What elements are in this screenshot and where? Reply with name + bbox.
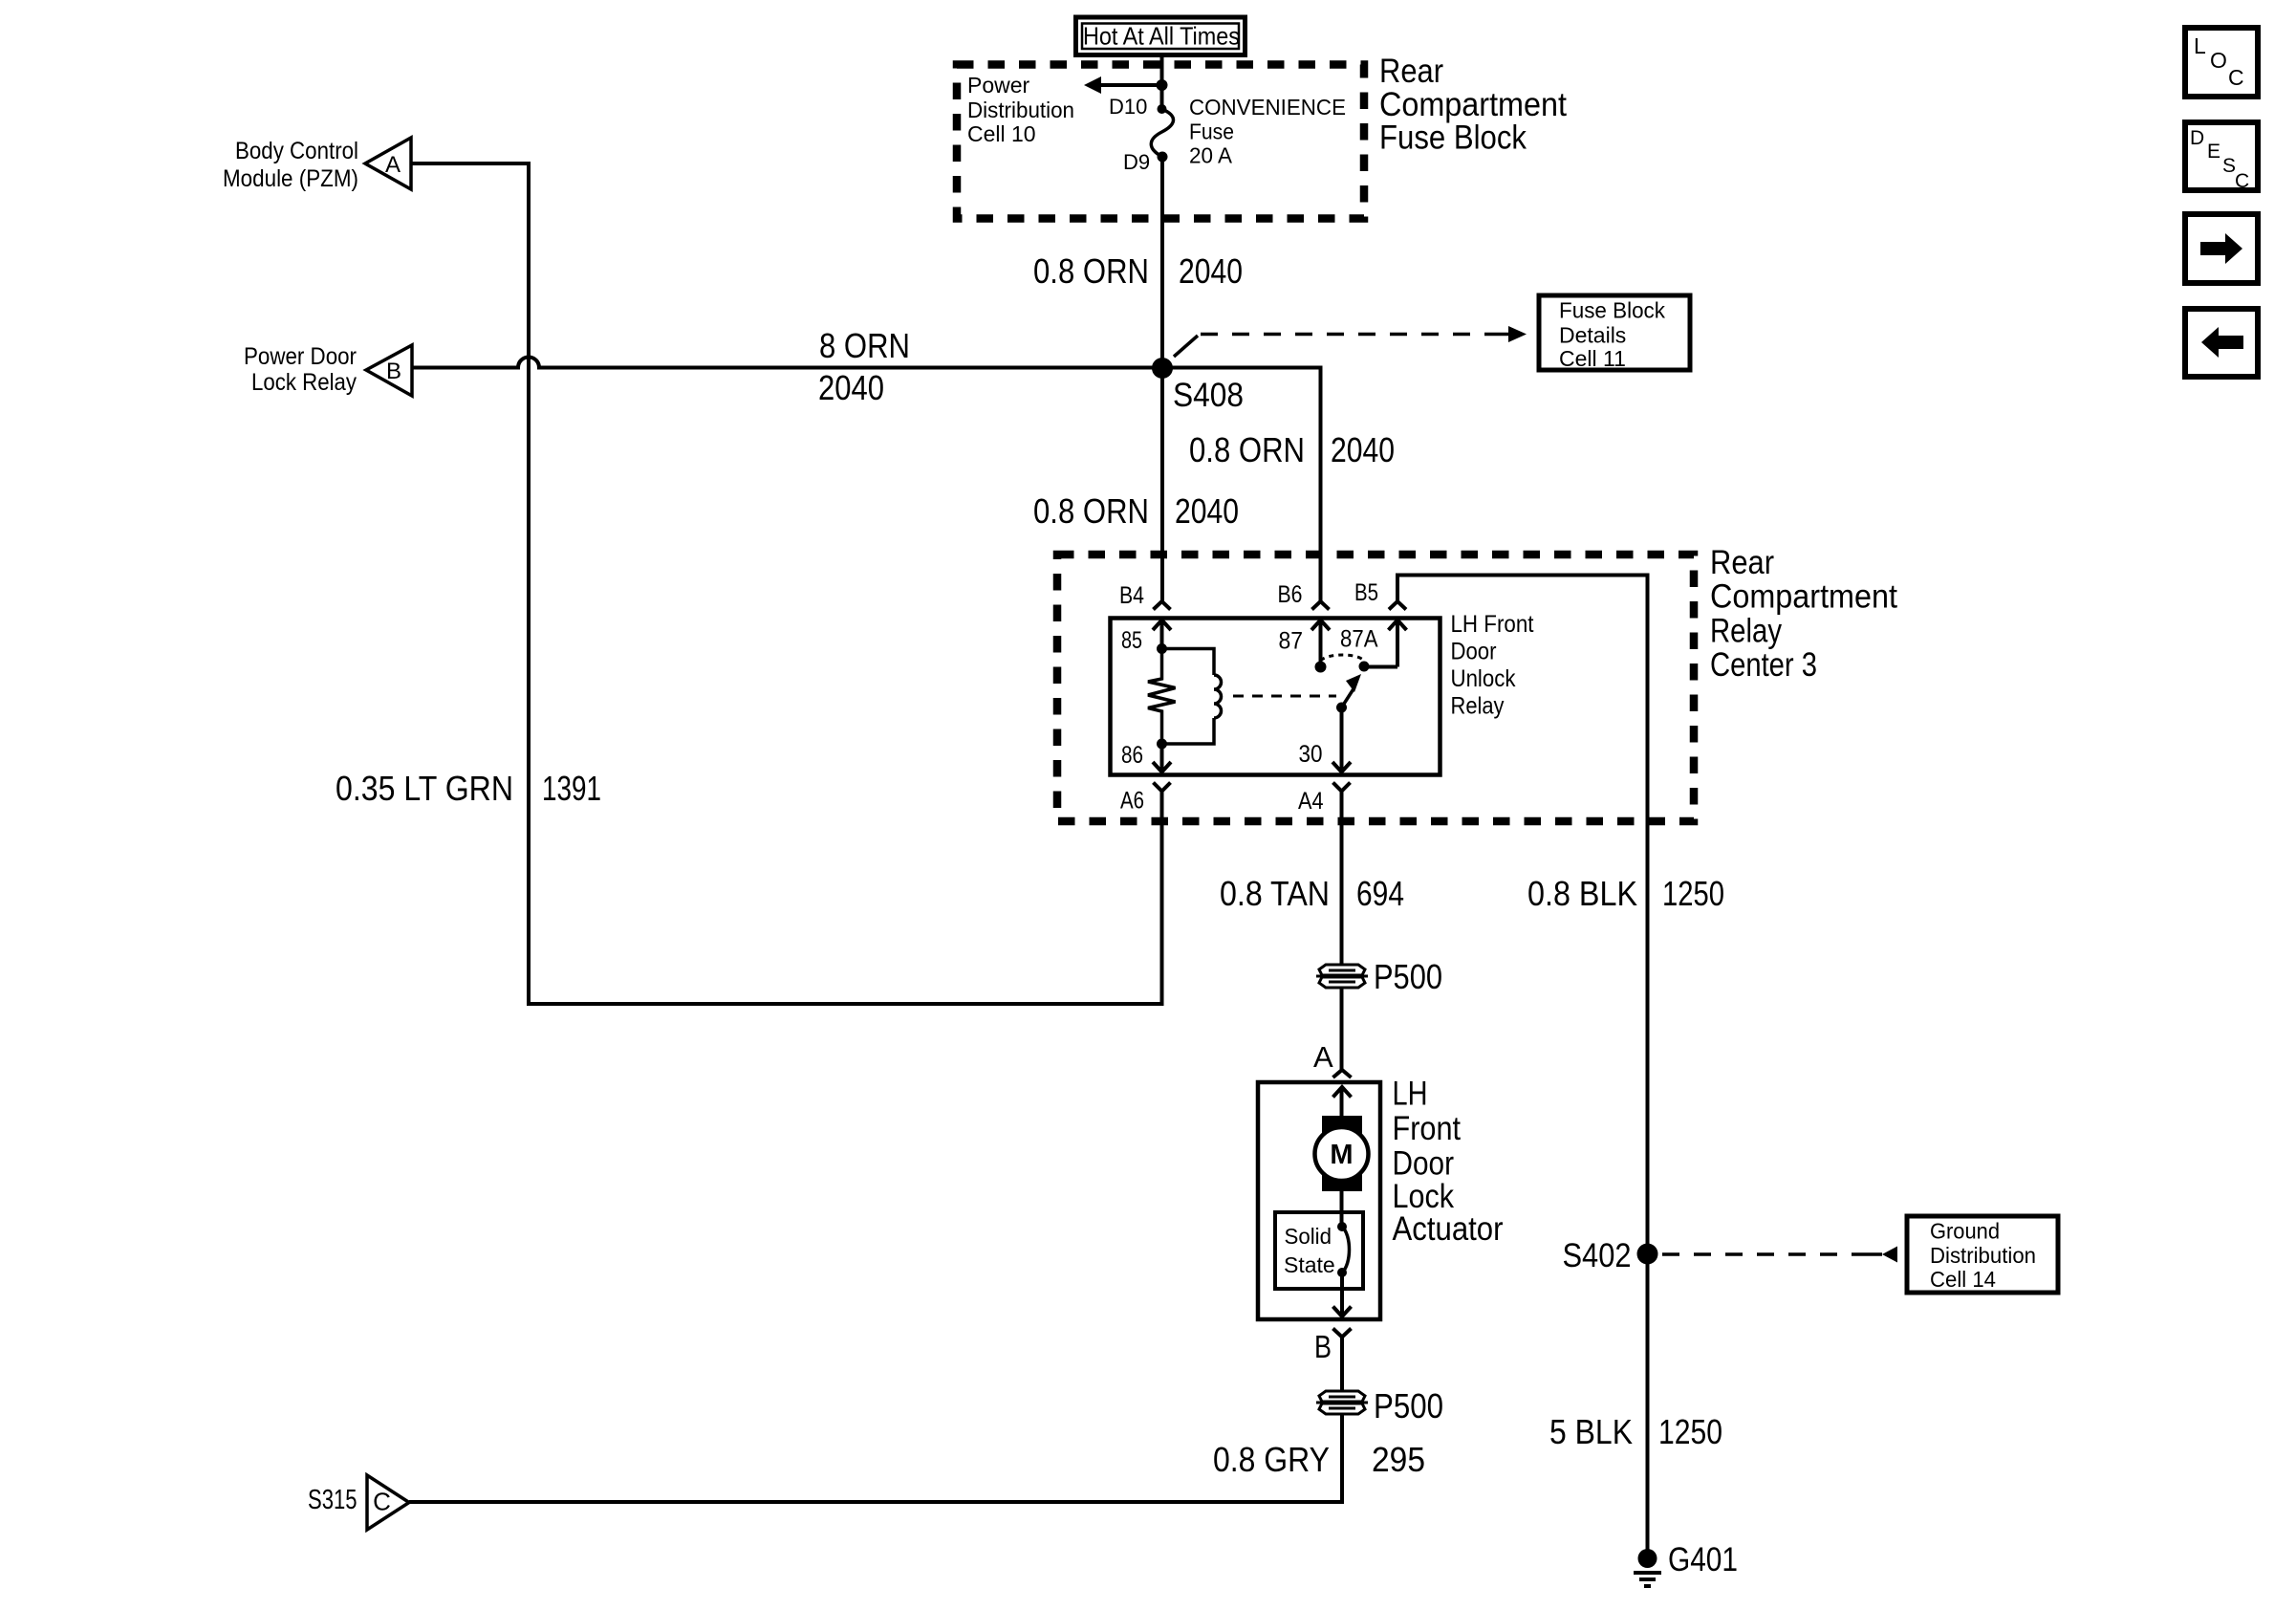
svg-text:Center 3: Center 3 <box>1710 646 1817 684</box>
svg-text:B4: B4 <box>1119 582 1144 609</box>
svg-text:Fuse Block: Fuse Block <box>1559 298 1665 323</box>
svg-text:0.8 ORN: 0.8 ORN <box>1033 251 1149 291</box>
svg-text:2040: 2040 <box>1179 251 1243 291</box>
svg-text:Fuse: Fuse <box>1189 120 1234 144</box>
svg-text:Distribution: Distribution <box>967 98 1074 122</box>
svg-text:B6: B6 <box>1278 581 1303 608</box>
svg-text:Fuse Block: Fuse Block <box>1379 120 1527 157</box>
svg-text:D10: D10 <box>1109 95 1147 119</box>
svg-text:86: 86 <box>1121 742 1143 769</box>
svg-text:5 BLK: 5 BLK <box>1549 1412 1633 1451</box>
svg-text:E: E <box>2207 141 2220 163</box>
svg-text:Power: Power <box>967 73 1030 98</box>
svg-text:Lock Relay: Lock Relay <box>251 369 357 396</box>
svg-text:B: B <box>1314 1329 1332 1364</box>
svg-text:LH: LH <box>1393 1076 1428 1113</box>
svg-text:87: 87 <box>1279 628 1304 655</box>
svg-text:0.8 GRY: 0.8 GRY <box>1213 1440 1330 1479</box>
svg-text:S408: S408 <box>1173 377 1244 414</box>
svg-text:Ground: Ground <box>1930 1219 2000 1244</box>
svg-text:0.8 ORN: 0.8 ORN <box>1033 491 1149 531</box>
svg-text:Body Control: Body Control <box>235 138 358 164</box>
svg-text:0.8 TAN: 0.8 TAN <box>1220 874 1330 913</box>
svg-text:A4: A4 <box>1298 788 1324 815</box>
svg-text:0.8 BLK: 0.8 BLK <box>1527 874 1637 913</box>
svg-text:Distribution: Distribution <box>1930 1243 2036 1268</box>
svg-text:Relay: Relay <box>1710 612 1782 649</box>
svg-text:30: 30 <box>1299 741 1323 768</box>
svg-text:20 A: 20 A <box>1189 143 1233 168</box>
svg-text:1391: 1391 <box>542 769 601 808</box>
svg-text:Cell 11: Cell 11 <box>1559 346 1626 371</box>
svg-text:1250: 1250 <box>1658 1412 1722 1451</box>
svg-text:2040: 2040 <box>818 368 884 407</box>
svg-text:Door: Door <box>1393 1145 1455 1183</box>
svg-text:Cell 10: Cell 10 <box>967 121 1036 146</box>
svg-text:S402: S402 <box>1563 1237 1632 1274</box>
svg-text:P500: P500 <box>1374 957 1442 996</box>
svg-text:2040: 2040 <box>1175 491 1239 531</box>
svg-text:CONVENIENCE: CONVENIENCE <box>1189 95 1346 120</box>
svg-text:A: A <box>1313 1040 1333 1074</box>
svg-text:Relay: Relay <box>1451 693 1505 720</box>
svg-text:L: L <box>2194 33 2206 58</box>
svg-text:694: 694 <box>1356 874 1404 913</box>
svg-text:P500: P500 <box>1374 1386 1443 1425</box>
svg-text:State: State <box>1284 1252 1335 1277</box>
svg-text:A: A <box>385 152 401 178</box>
svg-text:Hot At All Times: Hot At All Times <box>1083 22 1240 51</box>
svg-text:G401: G401 <box>1668 1541 1738 1578</box>
svg-text:Actuator: Actuator <box>1393 1210 1504 1248</box>
svg-text:Compartment: Compartment <box>1379 86 1567 123</box>
svg-text:1250: 1250 <box>1662 874 1724 913</box>
svg-text:LH Front: LH Front <box>1451 611 1534 638</box>
svg-text:C: C <box>2235 170 2249 192</box>
svg-text:0.8 ORN: 0.8 ORN <box>1189 430 1305 469</box>
svg-text:Solid: Solid <box>1285 1224 1332 1249</box>
svg-text:C: C <box>2228 65 2244 90</box>
svg-text:Compartment: Compartment <box>1710 578 1897 616</box>
svg-text:M: M <box>1330 1140 1353 1170</box>
svg-text:S: S <box>2222 155 2236 177</box>
svg-text:0.35 LT GRN: 0.35 LT GRN <box>336 769 513 808</box>
svg-text:8 ORN: 8 ORN <box>819 326 910 365</box>
svg-text:S315: S315 <box>308 1485 357 1515</box>
svg-text:2040: 2040 <box>1331 430 1395 469</box>
svg-text:B: B <box>386 359 401 384</box>
svg-text:Rear: Rear <box>1379 53 1443 90</box>
svg-text:Details: Details <box>1559 323 1626 348</box>
svg-text:Power Door: Power Door <box>244 343 357 370</box>
svg-text:85: 85 <box>1121 627 1142 654</box>
svg-text:Cell 14: Cell 14 <box>1930 1267 1996 1292</box>
svg-text:D9: D9 <box>1123 150 1150 174</box>
svg-text:B5: B5 <box>1354 579 1378 606</box>
svg-text:C: C <box>373 1488 391 1516</box>
svg-text:Front: Front <box>1393 1110 1462 1147</box>
svg-text:Unlock: Unlock <box>1451 665 1516 692</box>
svg-text:87A: 87A <box>1340 626 1378 653</box>
svg-text:295: 295 <box>1372 1440 1425 1479</box>
svg-text:A6: A6 <box>1120 788 1144 815</box>
svg-text:D: D <box>2190 127 2204 149</box>
svg-text:Door: Door <box>1451 639 1497 665</box>
svg-text:Rear: Rear <box>1710 544 1774 581</box>
svg-text:O: O <box>2210 48 2227 73</box>
svg-text:Module (PZM): Module (PZM) <box>223 165 358 192</box>
